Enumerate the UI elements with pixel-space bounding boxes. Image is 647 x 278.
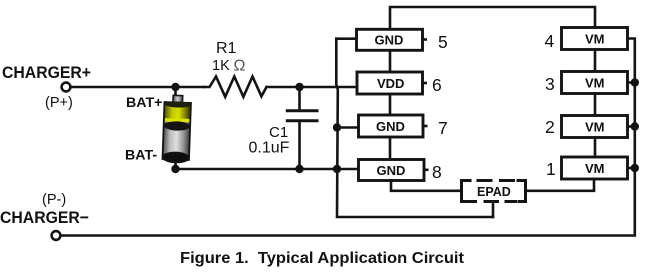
wire VDD6 to GND7 bbox=[389, 94, 392, 115]
pin box VM 4 bbox=[562, 28, 628, 50]
svg-text:VM: VM bbox=[585, 76, 605, 91]
resistor R1 bbox=[204, 77, 267, 97]
svg-text:(P+): (P+) bbox=[45, 95, 73, 111]
svg-text:3: 3 bbox=[545, 74, 555, 94]
node R1 C1 junction bbox=[295, 83, 303, 91]
svg-text:8: 8 bbox=[432, 162, 442, 182]
svg-text:7: 7 bbox=[438, 118, 448, 138]
capacitor C1 bbox=[286, 111, 319, 121]
svg-text:BAT-: BAT- bbox=[125, 148, 157, 164]
pin box VM 1 bbox=[562, 157, 628, 179]
svg-text:2: 2 bbox=[545, 117, 555, 137]
node battery negative junction bbox=[171, 165, 179, 173]
wire GND7 stub bbox=[337, 126, 359, 129]
wire battery positive lead bbox=[174, 87, 177, 96]
wire VM1 rail stub bbox=[628, 167, 635, 170]
wire right VM rail bbox=[61, 39, 635, 236]
svg-text:VM: VM bbox=[585, 120, 605, 135]
svg-text:VDD: VDD bbox=[377, 76, 404, 91]
terminal CHARGER- bbox=[52, 231, 61, 240]
wire GND5 stub bbox=[336, 37, 356, 40]
wire VM3 rail stub bbox=[628, 81, 635, 84]
svg-text:CHARGER+: CHARGER+ bbox=[2, 63, 91, 82]
node C1 bottom junction bbox=[295, 165, 303, 173]
svg-text:6: 6 bbox=[432, 75, 442, 95]
wire VM3 to VM2 bbox=[594, 94, 597, 116]
wire VM4 to VM3 bbox=[594, 50, 597, 72]
svg-text:VM: VM bbox=[585, 161, 605, 176]
wire left GND rail with crossover jog bbox=[336, 39, 493, 217]
pin box GND 8 bbox=[359, 160, 428, 181]
wire main from CHARGER+ to R1 bbox=[71, 86, 204, 89]
node GND7 rail junction bbox=[333, 123, 341, 131]
node VM2 rail junction bbox=[631, 122, 639, 130]
pad EPAD dashed outline bbox=[462, 181, 526, 202]
wire battery negative lead bbox=[174, 162, 177, 169]
terminal CHARGER+ bbox=[62, 83, 71, 92]
wire bottom battery/C1/GND net bbox=[176, 168, 359, 171]
wire GND7 to GND8 bbox=[389, 137, 392, 160]
wire EPAD to VM1 bbox=[526, 179, 595, 191]
svg-text:VM: VM bbox=[585, 32, 605, 47]
wire chip top interconnect bbox=[390, 7, 595, 29]
svg-text:GND: GND bbox=[375, 33, 404, 48]
pin box VM 2 bbox=[562, 116, 628, 138]
pin box GND 5 bbox=[357, 29, 426, 50]
node battery positive junction bbox=[171, 83, 179, 91]
svg-text:1: 1 bbox=[546, 159, 556, 179]
pin box GND 7 bbox=[359, 115, 427, 137]
node GND rail bottom junction bbox=[333, 165, 341, 173]
wire C1 bottom lead bbox=[298, 122, 301, 169]
wire R1 to VDD pin bbox=[267, 86, 358, 89]
wire GND5 to VDD6 bbox=[389, 50, 392, 72]
battery BT1 bbox=[162, 95, 191, 163]
svg-text:Ω: Ω bbox=[234, 58, 246, 75]
svg-text:EPAD: EPAD bbox=[477, 185, 511, 199]
wire GND8 to EPAD bbox=[391, 181, 462, 191]
wire C1 top lead bbox=[298, 87, 301, 109]
svg-text:BAT+: BAT+ bbox=[126, 95, 162, 111]
wire VM2 to VM1 bbox=[594, 138, 597, 158]
svg-text:GND: GND bbox=[377, 163, 406, 178]
svg-text:0.1uF: 0.1uF bbox=[249, 140, 290, 157]
svg-text:5: 5 bbox=[438, 32, 448, 52]
svg-text:C1: C1 bbox=[269, 124, 288, 141]
svg-text:CHARGER−: CHARGER− bbox=[0, 208, 89, 227]
svg-text:4: 4 bbox=[545, 31, 555, 51]
svg-text:1K: 1K bbox=[212, 58, 230, 74]
node VM3 rail junction bbox=[631, 78, 639, 86]
svg-text:Figure 1. Typical Application: Figure 1. Typical Application Circuit bbox=[180, 250, 465, 267]
svg-text:GND: GND bbox=[376, 119, 405, 134]
svg-text:R1: R1 bbox=[216, 40, 237, 57]
pin box VM 3 bbox=[562, 72, 628, 94]
wire EPAD bottom to GND rail bbox=[492, 202, 495, 218]
pin box VDD 6 bbox=[357, 72, 426, 94]
wire VM2 rail stub bbox=[628, 125, 635, 128]
node VM1 rail junction bbox=[631, 164, 639, 172]
svg-text:(P-): (P-) bbox=[42, 192, 66, 208]
